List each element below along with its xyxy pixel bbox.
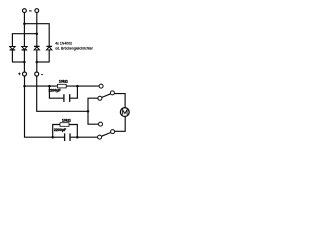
junction dot block2 left stub — [51, 136, 54, 139]
diode D1 (cathode down) — [10, 47, 16, 63]
terminal DC plus — [23, 72, 27, 76]
svg-text:10kΩ: 10kΩ — [59, 80, 68, 84]
wire S2 pole to motor — [115, 117, 126, 132]
switch S2 lower contact — [98, 135, 102, 139]
junction dot crossover — [87, 110, 90, 113]
resistor R2 box — [60, 123, 69, 127]
svg-text:2200µF: 2200µF — [48, 88, 61, 92]
terminal AC left — [23, 9, 27, 13]
wire vertical B from AC right to diode D3 — [36, 13, 38, 47]
wire block1 to switch S1 upper — [66, 85, 99, 87]
wire bus D1-D2 bottoms — [12, 61, 24, 63]
junction dot bus minus — [36, 61, 39, 64]
node A junction dot — [23, 22, 26, 25]
capacitor C1 plates — [63, 94, 65, 102]
svg-text:od. Brückengleichrichter: od. Brückengleichrichter — [55, 46, 93, 50]
switch S1 upper contact — [99, 84, 103, 88]
svg-text:4x 1N4002: 4x 1N4002 — [55, 41, 72, 45]
wire plus rail down then right — [25, 76, 53, 137]
capacitor C2 plates — [64, 133, 66, 141]
diode D3 (cathode up) — [34, 46, 40, 72]
diode D4 (cathode up) — [46, 46, 52, 62]
wire block2 bottom through left — [53, 136, 64, 138]
wire block2 bottom through right — [71, 136, 98, 138]
wire H1 from node A to diode D4 — [24, 24, 49, 46]
plus sign — [18, 73, 21, 76]
svg-text:10kΩ: 10kΩ — [62, 118, 71, 122]
node B junction dot — [36, 32, 39, 35]
resistor R1 box — [57, 84, 66, 88]
wire crossover vertical — [88, 98, 98, 124]
wire block1 cap loop left — [49, 86, 63, 98]
wire block2 resistor loop left — [53, 125, 60, 138]
junction dot block1 left stub — [48, 85, 51, 88]
switch S1 lower contact — [98, 96, 102, 100]
dash between AC terminals — [29, 10, 32, 12]
junction dot plus rail block1 — [23, 85, 26, 88]
junction dot block1 right stub — [76, 85, 79, 88]
svg-text:2200µF: 2200µF — [54, 128, 67, 132]
junction dot block2 right stub — [76, 136, 79, 139]
wire S1 pole to motor — [115, 94, 126, 108]
switch S1 pole contact — [110, 91, 114, 95]
wire vertical A from AC left to diode D2 — [23, 13, 25, 47]
wire block1 cap loop right — [70, 86, 77, 98]
switch S2 blade — [102, 133, 111, 137]
minus sign — [41, 74, 43, 76]
diode D2 (cathode down) — [22, 47, 28, 72]
wire H2 from node B to diode D1 — [12, 34, 36, 47]
terminal DC minus — [35, 72, 39, 76]
motor M1 — [120, 108, 129, 117]
switch S2 upper contact — [99, 122, 103, 126]
wire block2 resistor loop right — [69, 125, 77, 138]
switch S1 blade — [102, 94, 111, 98]
wire block1 through — [25, 85, 58, 87]
wire minus rail down then right — [37, 76, 88, 111]
junction dot bus plus — [23, 61, 26, 64]
terminal AC right — [35, 9, 39, 13]
wire bus D3-D4 bottoms — [37, 61, 49, 63]
switch S2 pole contact — [111, 130, 115, 134]
